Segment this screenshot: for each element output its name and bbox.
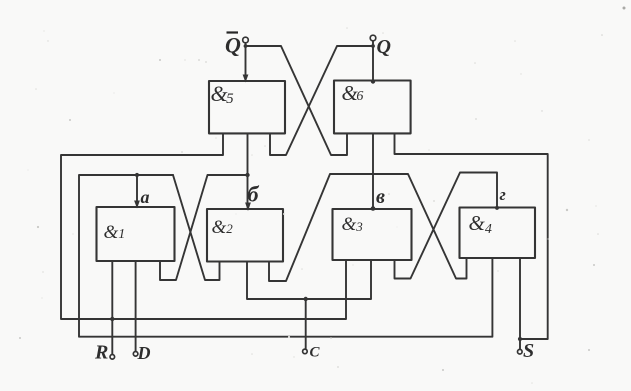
svg-text:R: R — [94, 342, 108, 364]
svg-text:S: S — [523, 340, 534, 362]
svg-text:а: а — [141, 187, 150, 207]
svg-text:Q: Q — [225, 33, 241, 58]
svg-text:б: б — [248, 182, 260, 207]
svg-text:C: C — [310, 345, 321, 361]
svg-text:&2: &2 — [212, 217, 234, 238]
svg-text:г: г — [500, 185, 506, 204]
svg-text:в: в — [376, 186, 385, 208]
svg-text:D: D — [137, 343, 151, 363]
svg-text:Q: Q — [377, 36, 391, 58]
